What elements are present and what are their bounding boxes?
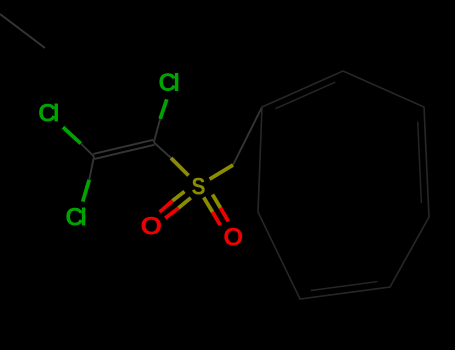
svg-text:l: l bbox=[80, 204, 87, 232]
svg-text:l: l bbox=[173, 69, 180, 97]
svg-text:O: O bbox=[223, 224, 243, 252]
svg-text:S: S bbox=[192, 173, 206, 199]
svg-text:l: l bbox=[53, 100, 60, 128]
svg-text:O: O bbox=[140, 212, 162, 240]
